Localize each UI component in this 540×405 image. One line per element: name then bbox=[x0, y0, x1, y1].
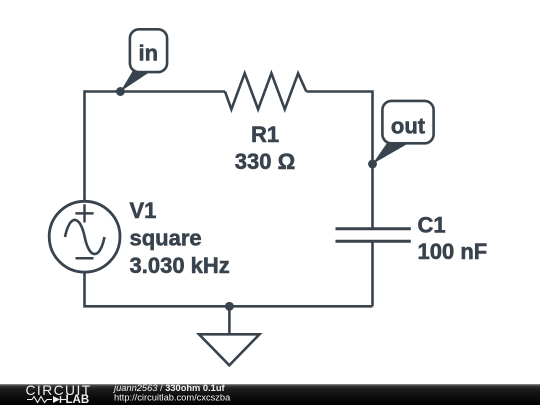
wire top right segment + right vertical down to capacitor bbox=[306, 92, 372, 229]
node out junction dot bbox=[368, 160, 377, 169]
resistor R1 bbox=[225, 73, 306, 174]
svg-text:R1: R1 bbox=[251, 122, 279, 147]
footer title text bbox=[112, 383, 231, 403]
svg-text:3.030 kHz: 3.030 kHz bbox=[130, 253, 230, 278]
svg-text:in: in bbox=[139, 40, 159, 65]
wire right vertical below capacitor bbox=[371, 241, 374, 306]
wire left vertical + top-left corner bbox=[85, 92, 226, 202]
svg-text:C1: C1 bbox=[418, 212, 446, 237]
footer bar bbox=[0, 384, 540, 405]
svg-text:330 Ω: 330 Ω bbox=[235, 149, 295, 174]
node in junction dot bbox=[116, 87, 125, 96]
svg-text:LAB: LAB bbox=[66, 394, 90, 405]
node in label callout bbox=[120, 29, 167, 91]
ground junction dot bbox=[225, 302, 234, 311]
ground bbox=[199, 306, 260, 365]
svg-text:http://circuitlab.com/cxcszba: http://circuitlab.com/cxcszba bbox=[114, 393, 231, 403]
svg-text:square: square bbox=[130, 226, 202, 251]
svg-text:100 nF: 100 nF bbox=[418, 239, 488, 264]
capacitor C1 bbox=[336, 212, 488, 264]
svg-text:out: out bbox=[391, 114, 426, 139]
CircuitLab logo bbox=[26, 383, 92, 405]
svg-text:V1: V1 bbox=[130, 198, 157, 223]
wire bottom rail bbox=[85, 272, 373, 306]
svg-text:juann2563 / 330ohm 0.1uf: juann2563 / 330ohm 0.1uf bbox=[112, 383, 226, 393]
node out label callout bbox=[373, 101, 434, 164]
voltage source V1 bbox=[49, 198, 230, 278]
